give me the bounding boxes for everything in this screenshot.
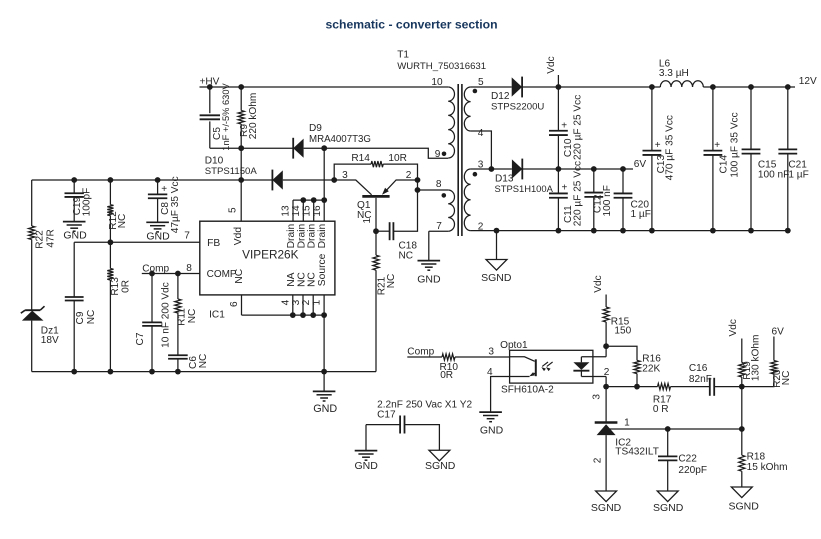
svg-text:C22: C22 bbox=[678, 454, 697, 465]
svg-text:1nF +/-5% 630V: 1nF +/-5% 630V bbox=[221, 82, 231, 150]
svg-text:3.3 µH: 3.3 µH bbox=[659, 68, 689, 79]
svg-text:VIPER26K: VIPER26K bbox=[242, 248, 299, 262]
svg-text:FB: FB bbox=[207, 238, 220, 249]
svg-text:STPS1H100A: STPS1H100A bbox=[495, 183, 554, 194]
svg-text:Drain: Drain bbox=[296, 224, 307, 249]
svg-text:10: 10 bbox=[431, 77, 443, 88]
svg-text:Vdd: Vdd bbox=[233, 227, 244, 246]
svg-text:NC: NC bbox=[234, 268, 245, 283]
svg-text:+: + bbox=[561, 121, 567, 132]
svg-text:220 kOhm: 220 kOhm bbox=[248, 93, 259, 140]
svg-text:GND: GND bbox=[146, 231, 170, 243]
svg-text:14: 14 bbox=[291, 205, 302, 217]
svg-text:6V: 6V bbox=[634, 159, 647, 170]
svg-text:16: 16 bbox=[312, 205, 323, 217]
svg-text:WURTH_750316631: WURTH_750316631 bbox=[397, 61, 486, 72]
svg-text:2: 2 bbox=[301, 299, 312, 305]
svg-text:5: 5 bbox=[228, 207, 239, 213]
svg-text:IC1: IC1 bbox=[209, 310, 225, 321]
svg-text:Vdc: Vdc bbox=[546, 56, 557, 73]
svg-text:GND: GND bbox=[355, 460, 379, 472]
svg-text:NC: NC bbox=[781, 371, 792, 386]
svg-text:NC: NC bbox=[117, 214, 128, 229]
svg-text:MRA4007T3G: MRA4007T3G bbox=[309, 134, 371, 145]
svg-text:12V: 12V bbox=[799, 76, 817, 87]
svg-text:22K: 22K bbox=[642, 363, 660, 374]
svg-text:SGND: SGND bbox=[653, 502, 684, 514]
svg-text:R22: R22 bbox=[34, 230, 45, 249]
svg-text:NC: NC bbox=[198, 354, 209, 369]
svg-text:6: 6 bbox=[229, 301, 240, 307]
svg-text:R14: R14 bbox=[351, 153, 370, 164]
svg-text:8: 8 bbox=[436, 179, 442, 190]
svg-text:2: 2 bbox=[406, 170, 412, 181]
svg-text:Drain: Drain bbox=[317, 224, 328, 249]
svg-text:3: 3 bbox=[342, 170, 348, 181]
svg-text:10R: 10R bbox=[388, 153, 407, 164]
svg-text:SFH610A-2: SFH610A-2 bbox=[501, 385, 554, 396]
svg-text:47R: 47R bbox=[45, 229, 56, 248]
svg-text:schematic - converter section: schematic - converter section bbox=[325, 18, 497, 32]
svg-text:100 nF: 100 nF bbox=[758, 170, 789, 181]
svg-text:+: + bbox=[714, 140, 720, 151]
svg-text:C9: C9 bbox=[75, 311, 86, 324]
svg-text:4: 4 bbox=[478, 128, 484, 139]
svg-text:GND: GND bbox=[417, 274, 441, 286]
svg-text:220pF: 220pF bbox=[678, 465, 707, 476]
svg-text:T1: T1 bbox=[397, 50, 409, 61]
svg-text:220 µF 25 Vcc: 220 µF 25 Vcc bbox=[573, 161, 584, 226]
svg-text:R18: R18 bbox=[747, 451, 766, 462]
svg-text:1: 1 bbox=[624, 418, 630, 429]
svg-text:100pF: 100pF bbox=[81, 188, 92, 217]
svg-text:6V: 6V bbox=[772, 326, 785, 337]
svg-text:+: + bbox=[161, 184, 167, 195]
svg-text:18V: 18V bbox=[41, 335, 59, 346]
svg-text:3: 3 bbox=[592, 394, 603, 400]
svg-text:1 µF: 1 µF bbox=[631, 209, 651, 220]
svg-text:3: 3 bbox=[488, 347, 494, 358]
svg-text:STPS2200U: STPS2200U bbox=[491, 101, 544, 112]
svg-text:R11: R11 bbox=[177, 308, 188, 326]
svg-text:150: 150 bbox=[614, 325, 631, 336]
svg-text:+: + bbox=[562, 183, 568, 194]
svg-text:Vdc: Vdc bbox=[593, 275, 604, 292]
svg-text:0R: 0R bbox=[440, 370, 453, 381]
svg-text:1: 1 bbox=[312, 299, 323, 305]
svg-text:8: 8 bbox=[186, 263, 192, 274]
svg-text:NC: NC bbox=[386, 274, 397, 289]
svg-text:100 nF: 100 nF bbox=[602, 185, 613, 216]
svg-text:SGND: SGND bbox=[425, 460, 456, 472]
svg-text:7: 7 bbox=[184, 231, 190, 242]
svg-text:SGND: SGND bbox=[591, 502, 622, 514]
svg-text:C17: C17 bbox=[377, 410, 396, 421]
svg-text:COMP: COMP bbox=[207, 269, 237, 280]
svg-text:100 µF 35 Vcc: 100 µF 35 Vcc bbox=[730, 112, 741, 177]
svg-text:Vdc: Vdc bbox=[728, 319, 739, 336]
svg-text:GND: GND bbox=[313, 403, 337, 415]
svg-text:470 µF 35 Vcc: 470 µF 35 Vcc bbox=[664, 115, 675, 180]
svg-text:NC: NC bbox=[187, 309, 198, 324]
svg-text:15 kOhm: 15 kOhm bbox=[747, 462, 788, 473]
svg-text:0 R: 0 R bbox=[653, 404, 669, 415]
svg-text:220 µF 25 Vcc: 220 µF 25 Vcc bbox=[573, 95, 584, 160]
svg-text:130 kOhm: 130 kOhm bbox=[751, 335, 762, 382]
svg-text:7: 7 bbox=[436, 221, 442, 232]
svg-text:10 nF 200 Vdc: 10 nF 200 Vdc bbox=[160, 282, 171, 348]
svg-text:Opto1: Opto1 bbox=[500, 340, 528, 351]
svg-text:C14: C14 bbox=[719, 155, 730, 174]
svg-text:15: 15 bbox=[301, 205, 312, 217]
svg-text:2: 2 bbox=[592, 457, 603, 463]
svg-text:TS432ILT: TS432ILT bbox=[615, 446, 659, 457]
svg-text:Comp: Comp bbox=[407, 347, 434, 358]
svg-text:GND: GND bbox=[480, 424, 504, 436]
svg-text:1 µF: 1 µF bbox=[788, 170, 808, 181]
svg-text:C16: C16 bbox=[689, 363, 708, 374]
svg-text:NC: NC bbox=[86, 310, 97, 325]
svg-text:47µF 35 Vcc: 47µF 35 Vcc bbox=[170, 176, 181, 233]
svg-text:R13: R13 bbox=[110, 277, 121, 296]
svg-text:0R: 0R bbox=[121, 280, 132, 293]
svg-text:NC: NC bbox=[399, 250, 414, 261]
svg-text:9: 9 bbox=[435, 149, 441, 160]
svg-text:SGND: SGND bbox=[481, 272, 512, 284]
svg-text:2: 2 bbox=[604, 367, 610, 378]
svg-text:NC: NC bbox=[296, 272, 307, 287]
svg-text:C7: C7 bbox=[135, 332, 146, 345]
svg-text:SGND: SGND bbox=[729, 501, 760, 513]
svg-text:1: 1 bbox=[362, 218, 373, 224]
svg-text:D12: D12 bbox=[491, 91, 510, 102]
svg-text:GND: GND bbox=[63, 230, 87, 242]
svg-text:D9: D9 bbox=[309, 123, 322, 134]
svg-text:Source: Source bbox=[317, 253, 328, 286]
svg-text:82nF: 82nF bbox=[689, 374, 712, 385]
svg-text:+: + bbox=[655, 140, 661, 151]
svg-text:STPS1150A: STPS1150A bbox=[205, 166, 258, 177]
svg-text:Comp: Comp bbox=[142, 263, 169, 274]
